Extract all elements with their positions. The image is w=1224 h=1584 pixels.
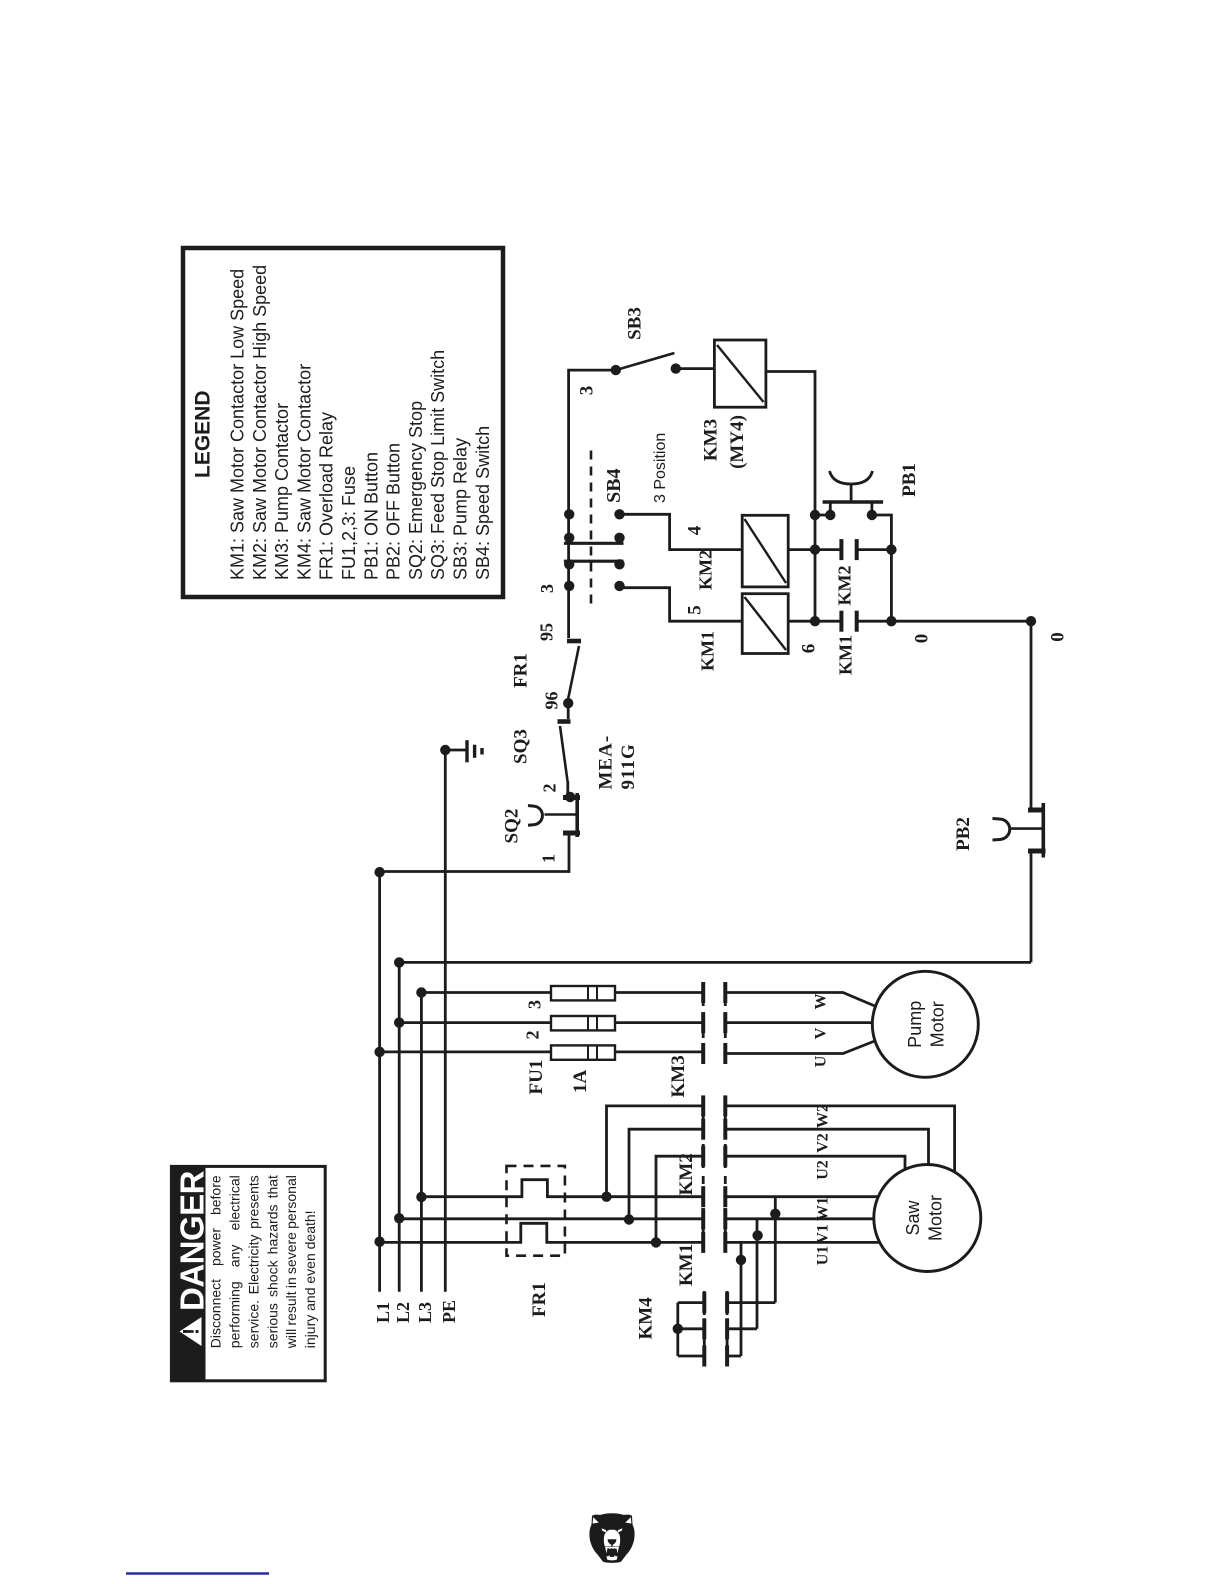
wire 0 return bus [399,961,1031,964]
junction KM1 aux/corner [886,616,896,626]
ground bar 3 [480,748,483,755]
svg-text:2: 2 [523,1031,543,1040]
KM4 contact left plate y1328.8 [702,1318,706,1339]
svg-text:KM1: KM1 [836,635,856,675]
svg-text:KM3: KM3 [701,419,722,461]
junction KM4 bus [673,1324,683,1334]
svg-text:U2: U2 [815,1160,832,1180]
svg-text:3: 3 [577,386,598,396]
SB4 bridge bar lower [564,560,624,563]
wire SB4 to node 4 [620,514,743,549]
svg-text:MEA-: MEA- [596,735,617,790]
KM3 contact left plate y1022.6 [701,1012,705,1033]
SB4 left pole 3 [564,559,574,569]
PB1 left terminal [825,510,835,520]
wire node3 vertical (main control line) [567,369,570,638]
bear logo [589,1513,634,1563]
PE bus [444,750,447,1292]
FR1 contact blade [568,646,580,702]
wire KM3 to pump U [725,1041,876,1054]
wire fuse3 feed [421,991,551,994]
svg-text:KM2: KM2 [676,1153,697,1195]
PB1 left lead [815,514,830,517]
wire riser V2 [629,1129,703,1219]
wire tap U1-KM4 [740,1242,743,1356]
wire tap W1-KM4 [774,1197,777,1303]
svg-text:911G: 911G [618,743,639,789]
KM4 linkage left [703,1291,706,1367]
svg-text:KM2: Saw Motor Contactor High: KM2: Saw Motor Contactor High Speed [250,265,270,580]
PB1 right terminal [867,510,877,520]
SQ3 terminal tick [558,719,571,724]
svg-text:LEGEND: LEGEND [192,390,215,478]
FR1 95 terminal tick [567,639,581,644]
wire U1 row [380,1223,704,1242]
contactor coil KM2 box [742,515,788,587]
svg-text:KM4: KM4 [636,1297,657,1340]
svg-text:PB2: OFF Button: PB2: OFF Button [384,443,404,580]
junction tap V1 [752,1230,762,1240]
saw contact left plate y1196.7 [701,1186,705,1207]
fuse FU1-3 tick b [596,987,598,999]
ground junction [440,745,450,755]
SB4 right pole 2 [614,533,624,543]
danger warning triangle [180,1317,202,1346]
svg-text:V1: V1 [815,1224,832,1244]
ground bar 1 [465,740,468,762]
svg-text:SQ2: Emergency Stop: SQ2: Emergency Stop [406,401,426,580]
svg-text:will result in severe personal: will result in severe personal [283,1175,299,1349]
SB4 left pole 1 [564,509,574,519]
KM4 row2 right [727,1327,757,1330]
danger box frame [171,1166,325,1380]
svg-text:!: ! [179,1328,204,1335]
KM2 aux contact right plate [855,539,859,560]
PB2 contact bar [1042,803,1046,858]
wire V1 to saw [725,1217,874,1220]
svg-text:U: U [813,1055,830,1067]
junction L3 top [416,987,426,997]
wire fuse2 feed [399,1021,551,1024]
KM1 aux contact left plate [839,611,843,632]
svg-text:FR1: FR1 [511,653,532,688]
svg-text:KM2: KM2 [696,550,716,590]
SB4 left pole 4 [564,581,574,591]
wire PB1 right to corner [872,515,892,550]
saw motor circle [874,1165,981,1272]
junction tap U1 [736,1255,746,1265]
PB2 upper terminal tick [1028,808,1045,813]
saw contact right plate y1129.2 [723,1119,727,1140]
wire U1 to saw [725,1241,880,1244]
svg-text:KM3: KM3 [668,1055,689,1097]
SB3 right terminal [671,363,681,373]
wire node 0 to PB2 [1030,621,1033,810]
svg-text:SB3: Pump Relay: SB3: Pump Relay [451,438,471,580]
SB4 mechanical dashed line [590,451,593,611]
junction L1 fuse [374,1047,384,1057]
PB1 contact bar [823,500,884,503]
node 0 [1026,616,1036,626]
svg-text:Saw: Saw [903,1199,923,1235]
KM3 contact left plate y992.5 [701,982,705,1003]
wire corner down [890,550,893,622]
KM4 row2 left [678,1327,705,1330]
SQ2 actuator head [528,806,542,826]
svg-text:FU1: FU1 [526,1060,547,1095]
wire riser U2 [656,1156,703,1242]
KM1 coil diagonal [745,597,787,650]
svg-text:KM1: KM1 [698,631,718,671]
junction L1 saw [374,1237,384,1247]
PB1 left stub [829,503,832,515]
svg-text:0: 0 [1048,632,1069,642]
svg-text:FR1: FR1 [529,1282,550,1317]
svg-text:4: 4 [685,525,706,535]
svg-text:injury and even death!: injury and even death! [302,1210,318,1348]
wire riser W2 [607,1106,704,1197]
svg-text:3: 3 [537,584,557,593]
KM1 aux contact right plate [855,611,859,632]
saw contact left plate y1218.8 [701,1208,705,1229]
svg-text:performing any electrical: performing any electrical [227,1175,243,1348]
svg-text:SB4: SB4 [603,468,625,502]
SQ2 contact bar [575,793,579,837]
svg-text:PB2: PB2 [953,817,974,851]
saw contact right plate y1242.4 [723,1232,727,1253]
svg-text:3 Position: 3 Position [652,433,669,503]
wire U2 to saw [725,1156,905,1170]
overload FR1 heater dashed box [507,1166,565,1256]
svg-text:L2: L2 [393,1302,413,1323]
KM2 aux contact left plate [839,539,843,560]
svg-text:3: 3 [525,1000,545,1009]
KM4 contact right plate y1328.8 [725,1318,729,1339]
svg-text:KM4: Saw Motor Contactor: KM4: Saw Motor Contactor [294,364,314,580]
L1 bus [378,872,381,1292]
svg-text:SB4: Speed Switch: SB4: Speed Switch [473,426,493,580]
SB4 right pole 1 [614,509,624,519]
svg-text:Motor: Motor [926,1195,946,1241]
junction riser U2 [651,1237,661,1247]
SQ2 upper terminal tick [563,795,580,800]
SB4 bridge bar upper [564,542,624,545]
wire V1 row [399,1217,703,1220]
svg-text:Pump: Pump [905,1001,925,1048]
fuse FU1-1 tick b [596,1046,598,1058]
fuse FU1-3 tick a [587,987,589,999]
KM4 contact left plate y1356 [702,1346,706,1367]
PB2 lower terminal tick [1028,849,1046,854]
footer rule [126,1572,269,1575]
wire fuse1 feed [380,1051,551,1054]
saw contact left plate y1242.4 [701,1232,705,1253]
KM4 row1 left [678,1301,705,1304]
node 96 [563,698,573,708]
svg-text:W: W [813,994,830,1010]
saw contact right plate y1156.2 [723,1146,727,1167]
fuse FU1-2 tick a [587,1017,589,1029]
KM2/KM1 linkage left [702,1096,705,1252]
svg-text:SQ3: SQ3 [511,729,532,764]
PB1 plunger stem [850,484,853,502]
wire KM1 coil output [788,620,841,623]
wire KM3 to pump V [725,1021,872,1024]
saw contact left plate y1105.9 [701,1095,705,1116]
svg-text:Motor: Motor [928,1001,948,1047]
svg-text:96: 96 [542,692,562,710]
wire KM3 coil to main right line [766,372,815,516]
svg-text:FR1: Overload Relay: FR1: Overload Relay [317,412,337,580]
ground bar 2 [473,745,476,758]
wire KM2 coil output [788,548,841,551]
SB4 left pole 2 [564,533,574,543]
svg-text:DANGER: DANGER [174,1170,211,1311]
svg-text:(MY4): (MY4) [727,415,748,469]
wire KM2 aux to corner [857,548,892,551]
junction L2 top [394,957,404,967]
SB4 right pole 4 [614,581,624,591]
junction main/KM1 aux row [810,616,820,626]
svg-text:2: 2 [540,784,560,793]
svg-text:W1: W1 [815,1197,832,1221]
fuse FU1-2 body [551,1016,615,1030]
KM4 row3 right [727,1355,741,1358]
SQ2 lower terminal tick [563,831,580,836]
wire W1 row [421,1180,703,1197]
danger banner [171,1166,205,1380]
SQ2 plunger stem [545,813,576,816]
junction riser W2 [601,1192,611,1202]
KM3 contact right plate y1053.5 [723,1043,727,1064]
wire KM1 aux to node 0 [857,620,1031,623]
svg-text:KM3: Pump Contactor: KM3: Pump Contactor [272,403,292,580]
junction KM2 aux/corner [886,544,896,554]
wire W1 to saw [725,1195,878,1198]
wire V2 to saw [725,1129,928,1165]
wire SB4 to node 5 [620,588,743,622]
junction L2 fuse [394,1017,404,1027]
legend box frame [183,248,503,597]
PB1 right stub [871,503,874,515]
SQ3 contact blade [560,726,568,781]
junction main/KM2 aux row [810,544,820,554]
svg-text:U1: U1 [815,1246,832,1266]
KM3 contact left plate y1053.5 [701,1043,705,1064]
svg-text:0: 0 [912,634,933,644]
L2 bus [398,961,401,1292]
PB1 actuator head [830,471,873,484]
SB4 right pole 3 [614,559,624,569]
wire fuse2 out [615,1021,703,1024]
svg-text:V: V [813,1027,830,1039]
KM4 contact left plate y1302.6 [702,1292,706,1313]
SB3 left terminal [611,365,621,375]
svg-text:FU1,2,3: Fuse: FU1,2,3: Fuse [339,466,359,580]
L3 bus [420,993,423,1292]
wire main right vertical [814,515,817,621]
svg-text:PE: PE [439,1300,459,1323]
relay coil KM3 (MY4) box [714,340,766,407]
svg-text:KM2: KM2 [835,566,855,606]
junction L1 top [374,867,384,877]
svg-text:SQ3: Feed Stop Limit Switch: SQ3: Feed Stop Limit Switch [428,350,448,580]
svg-text:serious shock hazards that: serious shock hazards that [264,1175,280,1348]
wire fuse1 out [615,1051,703,1054]
svg-text:W2: W2 [815,1104,832,1128]
wire SQ3 to node 2 [566,781,569,797]
PB2 actuator head [993,819,1010,841]
wire tap V1-KM4 [756,1219,759,1329]
svg-text:PB1: PB1 [899,463,920,497]
saw contact right plate y1105.9 [723,1095,727,1116]
ground lead [445,749,466,752]
KM3 coil diagonal [717,345,764,402]
junction main/PB1 row [810,510,820,520]
svg-text:5: 5 [685,605,706,615]
svg-text:KM1: Saw Motor Contactor Low S: KM1: Saw Motor Contactor Low Speed [228,269,248,580]
KM3 linkage right [724,982,727,1064]
KM4 contact right plate y1356 [725,1346,729,1367]
svg-text:6: 6 [799,644,820,654]
saw contact right plate y1218.8 [723,1208,727,1229]
fuse FU1-1 body [551,1045,615,1059]
svg-text:SQ2: SQ2 [502,809,523,844]
svg-text:service. Electricity presents: service. Electricity presents [245,1175,261,1348]
KM2 coil diagonal [745,519,787,583]
KM3 contact right plate y1022.6 [723,1012,727,1033]
fuse FU1-2 tick b [596,1017,598,1029]
svg-text:L3: L3 [415,1302,435,1323]
pump motor circle [872,971,978,1077]
svg-text:Disconnect power before: Disconnect power before [208,1175,224,1348]
wire KM3 to pump W [725,993,876,1007]
svg-text:1A: 1A [570,1070,591,1094]
KM4 left bus [676,1303,679,1356]
KM4 contact right plate y1302.6 [725,1292,729,1313]
contactor coil KM1 box [742,594,788,654]
fuse FU1-1 tick a [587,1046,589,1058]
wire 96 stub [567,703,570,719]
saw contact right plate y1196.7 [723,1186,727,1207]
node 2 [565,792,575,802]
KM4 linkage right [726,1291,729,1367]
svg-text:KM1: KM1 [676,1244,697,1286]
KM3 linkage left [702,982,705,1064]
junction L2 saw [394,1213,404,1223]
junction tap W1 [770,1209,780,1219]
svg-text:95: 95 [537,623,557,641]
svg-text:SB3: SB3 [625,307,646,340]
PB2 plunger stem [1010,827,1042,830]
wire fuse3 out [615,991,703,994]
saw contact left plate y1129.2 [701,1119,705,1140]
KM3 contact right plate y992.5 [723,982,727,1003]
SB3 blade [616,353,675,370]
KM2/KM1 linkage right [724,1096,727,1252]
saw contact left plate y1156.2 [701,1146,705,1167]
junction riser V2 [624,1214,634,1224]
wire SQ2 to L1 [380,833,569,872]
svg-text:PB1: ON Button: PB1: ON Button [361,452,381,580]
svg-text:L1: L1 [373,1302,393,1323]
KM4 row1 right [727,1301,775,1304]
wire SB3 to KM3 coil [676,367,715,370]
fuse FU1-3 body [551,986,615,1000]
wire PB2 to 0 bus [1030,851,1033,962]
wire node3 horizontal [569,369,616,372]
svg-text:1: 1 [539,854,559,863]
svg-text:V2: V2 [815,1133,832,1153]
junction L3 saw [416,1192,426,1202]
wire W2 to saw [725,1106,954,1172]
KM4 row3 left [678,1355,705,1358]
